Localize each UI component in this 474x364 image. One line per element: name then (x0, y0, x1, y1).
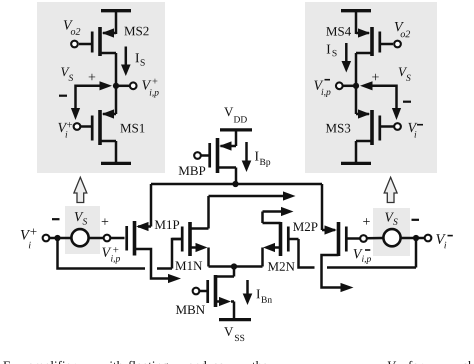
VS polarity arrows left box (71, 81, 112, 120)
wire node to Vi- terminal (416, 237, 425, 240)
transistor MS4 (356, 27, 393, 56)
wire rail to MS2 source (115, 11, 118, 34)
plus sign VS left (102, 218, 109, 225)
terminal Vip- main (360, 235, 367, 242)
supply bar VDD (220, 128, 252, 131)
label M2P (293, 222, 317, 231)
transistor M1P (127, 221, 151, 256)
wire M1N drain up (190, 196, 209, 229)
label VS (right box) (399, 67, 411, 81)
wire VS source to Vip+ terminal (89, 237, 104, 240)
transistor M1N (172, 222, 208, 256)
label Vi- (right box) (408, 123, 423, 138)
supply rail bar top-left (101, 9, 131, 12)
label MBP (179, 166, 206, 175)
wire bottom common-source center (209, 265, 263, 268)
rail bar bottom-left (101, 162, 131, 165)
node MBP drain junction (232, 181, 238, 187)
terminal MBN gate (193, 288, 200, 295)
wire Vip+ to M1P gate (110, 237, 124, 240)
wire M2N drain up (263, 212, 281, 224)
VS polarity arrows right box (360, 81, 401, 120)
current arrow IS right (342, 43, 352, 73)
minus sign VS right (412, 219, 420, 221)
label VS (left box) (61, 67, 73, 81)
label VS source right (385, 213, 397, 225)
wire MS1 source to rail (100, 141, 116, 162)
terminal Vi- main (425, 235, 432, 242)
label Vi+ (left box) (58, 122, 72, 137)
hollow arrow left (74, 177, 87, 202)
transistor MS3 (356, 109, 394, 145)
label IS left (135, 53, 144, 65)
label MS4 (326, 27, 351, 36)
minus sign VS left (52, 218, 60, 220)
node Vip+ (left box) (113, 83, 119, 89)
wire MS3 source to rail (356, 141, 372, 162)
label Vip+ (left box) (142, 79, 158, 98)
terminal Vi+ main (43, 235, 50, 242)
terminal Vo2 right (394, 41, 401, 48)
wire top rail to M2P source (321, 184, 324, 230)
label MS2 (124, 27, 148, 36)
label M2N (268, 262, 295, 271)
wire Vip- to VS source (367, 237, 384, 240)
wire node to terminal (left box) (116, 85, 130, 88)
supply rail bar top-right (341, 9, 371, 12)
minus sign (right box) (403, 101, 411, 103)
label Vip- (right box) (314, 80, 330, 97)
signal arrow M1N drain to right (209, 191, 296, 200)
terminal Vip- (right box) (336, 82, 343, 89)
transistor MS2 (79, 27, 116, 56)
node Vi- junction (413, 235, 419, 241)
hollow arrow right (384, 177, 397, 202)
wire MS2 drain to node (100, 53, 116, 86)
current arrow IBn (243, 280, 253, 305)
net M2N gate to Vi- (right run) (327, 238, 416, 268)
terminal Vi- (right box) (394, 123, 401, 130)
label Vi+ main (21, 228, 37, 248)
current arrow IBp (242, 142, 252, 172)
wire M2N source down (261, 248, 264, 267)
label IBn (256, 289, 271, 302)
wire top rail to M1P source (150, 184, 153, 227)
supply bar VSS (219, 318, 251, 321)
node MBN drain junction (231, 263, 237, 269)
terminal Vo2 left (71, 41, 78, 48)
label Vip+ main (102, 247, 120, 263)
caption text (clipped) (3, 361, 471, 364)
label IS right (327, 45, 337, 57)
wire VDD to MBP source (235, 130, 238, 146)
wire MBP drain to node (218, 168, 237, 185)
plus sign (right box) (372, 74, 379, 81)
label Vo2 left (64, 20, 81, 34)
label IBp (255, 152, 270, 167)
wire Vi+ terminal to node (49, 237, 55, 240)
label MS3 (326, 124, 350, 133)
voltage source VS right (383, 229, 400, 246)
minus sign (left box) (59, 95, 67, 97)
wire VS source to Vi- node (401, 237, 413, 240)
wire top common-source rail (151, 183, 322, 186)
terminal Vip+ (left box) (130, 82, 137, 89)
terminal MBP gate (194, 152, 201, 159)
label VDD (224, 107, 247, 122)
transistor MS1 (80, 109, 116, 145)
label M1N (175, 261, 202, 270)
terminal Vi+ (left box) (74, 123, 81, 130)
implementation box right (shaded) (305, 2, 437, 173)
label Vip- main (354, 249, 371, 264)
node Vip- (right box) (353, 83, 359, 89)
wire rail to MS4 source (355, 11, 358, 34)
wire node to MS1 drain (115, 86, 118, 114)
label VSS (224, 327, 244, 341)
label MS1 (120, 124, 144, 133)
net Vi+ to M1N gate (left run) (58, 238, 182, 269)
node Vi+ junction (54, 235, 60, 241)
shaded box VS left (65, 206, 100, 254)
wire node to VS source (58, 237, 72, 240)
wire node to terminal (right box) (343, 85, 357, 88)
implementation box left (shaded) (37, 2, 165, 173)
label M1P (155, 220, 179, 229)
terminal Vip+ main (104, 235, 111, 242)
wire M1N source down (207, 248, 210, 267)
label MBN (176, 305, 205, 314)
plus sign VS right (363, 218, 370, 225)
wire MS4 drain to node (356, 53, 372, 86)
label VS source left (75, 212, 87, 224)
wire MBN source to VSS (231, 302, 234, 320)
label Vi- main (436, 234, 453, 248)
transistor M2P (322, 222, 360, 256)
wire M2N gate down to net (299, 239, 315, 268)
transistor MBP (202, 138, 237, 173)
wire node to MS3 drain (355, 86, 358, 114)
transistor MBN (200, 275, 232, 307)
current arrow IS left (121, 47, 131, 77)
signal arrow M2N drain to right (263, 207, 294, 216)
voltage source VS left (71, 229, 88, 246)
wire M2P drain with arrow right (322, 255, 354, 292)
wire M1P drain with arrow to M1N gate node (135, 249, 182, 283)
plus sign (left box) (89, 74, 96, 81)
label Vo2 right (395, 22, 410, 37)
shaded box VS right (373, 208, 410, 256)
wire MBN drain (216, 267, 235, 277)
transistor M2N (263, 222, 299, 256)
rail bar bottom-right (341, 162, 371, 165)
